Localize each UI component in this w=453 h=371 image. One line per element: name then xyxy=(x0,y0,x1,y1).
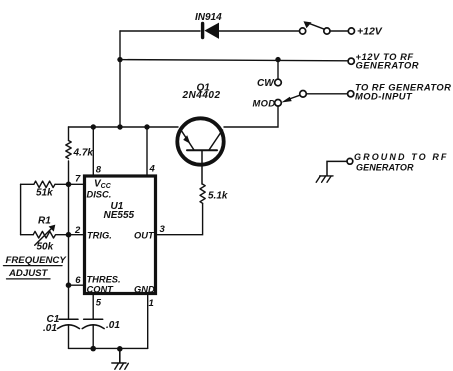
label U1 NE555 xyxy=(104,201,135,221)
label Q1 2N4402 xyxy=(182,83,221,102)
label TRIG. xyxy=(87,231,112,241)
wire: +12 rail (row 3) to Q1 emitter xyxy=(69,126,179,128)
node: cap2 bottom junction xyxy=(90,346,96,352)
svg-text:GND: GND xyxy=(134,285,155,295)
capacitor C1 .01 xyxy=(58,319,80,348)
switch S1 (open, lever arrow) xyxy=(300,21,355,34)
resistor R4 51k (pin7 to pot) xyxy=(21,181,66,187)
label TO RF GENERATOR MOD-INPUT xyxy=(355,81,451,101)
node: ground tap junction xyxy=(117,346,123,352)
svg-text:51k: 51k xyxy=(36,188,53,199)
svg-text:NE555: NE555 xyxy=(104,210,135,221)
pin number 2 xyxy=(74,225,81,236)
label MOD xyxy=(253,98,276,109)
svg-text:4.7k: 4.7k xyxy=(73,148,94,159)
svg-text:4: 4 xyxy=(149,164,156,175)
svg-text:OUT: OUT xyxy=(134,231,155,241)
svg-text:CW: CW xyxy=(257,78,275,89)
terminal CW xyxy=(275,79,282,86)
label 1N914 xyxy=(195,12,222,23)
pin number 4 xyxy=(149,164,156,175)
svg-text:.01: .01 xyxy=(43,323,57,334)
terminal MOD xyxy=(275,100,282,107)
label DISC. xyxy=(87,189,112,199)
svg-text:THRES.: THRES. xyxy=(87,275,121,285)
svg-text:FREQUENCY: FREQUENCY xyxy=(6,255,68,266)
label C1 .01 xyxy=(43,314,60,334)
wire: pin 7 stub xyxy=(69,183,85,185)
wire: left column pin7 to pin6 to bottom rail xyxy=(68,184,70,319)
wire: diode to switch S1 xyxy=(219,30,300,32)
wire: pin 5 vertical xyxy=(92,294,94,320)
wire: CW tap vertical xyxy=(277,60,279,80)
terminal: GROUND TO RF GENERATOR xyxy=(347,158,353,164)
label +12V TO RF GENERATOR xyxy=(356,51,420,71)
svg-text:3: 3 xyxy=(160,224,166,235)
ground (RF generator) xyxy=(316,161,347,182)
label FREQUENCY ADJUST xyxy=(4,255,68,279)
capacitor C2 .01 (pin 5 bypass) xyxy=(82,319,104,348)
svg-text:GENERATOR: GENERATOR xyxy=(356,60,420,71)
node: junction dot diode column xyxy=(117,124,122,129)
svg-text:7: 7 xyxy=(75,174,81,185)
svg-text:MOD: MOD xyxy=(253,98,276,109)
svg-text:CONT: CONT xyxy=(87,285,115,295)
node: junction dot pin4 column xyxy=(144,124,149,129)
pin number 5 xyxy=(96,298,102,309)
label +12V xyxy=(357,26,383,38)
wire: pin 6 stub xyxy=(69,284,85,286)
svg-text:6: 6 xyxy=(75,275,81,286)
node: pin 7 junction xyxy=(66,182,72,188)
wire: pin 4 xyxy=(146,127,148,176)
label THRES. xyxy=(87,275,121,285)
label Vcc xyxy=(94,178,112,190)
label 51k xyxy=(36,188,53,199)
label 4.7k xyxy=(73,148,94,159)
svg-text:1: 1 xyxy=(149,298,154,309)
wire: +12V rail (row 2) to RF generator terminal xyxy=(120,60,348,61)
svg-text:MOD-INPUT: MOD-INPUT xyxy=(355,91,413,102)
svg-text:TRIG.: TRIG. xyxy=(87,231,112,241)
wire: left loop vertical xyxy=(20,184,22,234)
label GND xyxy=(134,285,155,295)
node: junction dot pin8 column xyxy=(91,124,96,129)
svg-text:IN914: IN914 xyxy=(195,12,222,23)
svg-text:VCC: VCC xyxy=(94,178,112,190)
label 50k xyxy=(37,242,54,253)
pin number 3 xyxy=(160,224,166,235)
node: junction dot CW tap xyxy=(275,57,280,62)
svg-text:2N4402: 2N4402 xyxy=(182,90,221,101)
svg-text:5: 5 xyxy=(96,298,102,309)
label R1 xyxy=(38,215,51,226)
resistor R2 5.1k (base of Q1 to pin 3) xyxy=(200,184,205,203)
potentiometer R1 50k xyxy=(21,225,66,246)
pin number 1 xyxy=(149,298,154,309)
label CW xyxy=(257,78,275,89)
svg-text:2: 2 xyxy=(74,225,81,236)
wire: pin 1 vertical xyxy=(147,294,149,349)
node: pin 2 junction xyxy=(66,232,72,238)
node: junction dot left vertical / row2 xyxy=(117,57,122,62)
node: pin 6 junction xyxy=(66,282,72,288)
svg-text:50k: 50k xyxy=(37,242,54,253)
wire: top row from left vertical to diode xyxy=(120,30,200,32)
label 5.1k xyxy=(208,191,228,202)
wire: bottom rail xyxy=(69,347,148,349)
svg-text:DISC.: DISC. xyxy=(87,189,112,199)
wire: left vertical from diode row to +12 rail xyxy=(119,31,121,127)
wire: pin 2 stub xyxy=(69,234,85,236)
label GROUND TO RF GENERATOR xyxy=(354,152,449,173)
label .01 xyxy=(106,320,120,331)
svg-text:R1: R1 xyxy=(38,215,51,226)
label CONT xyxy=(87,285,115,295)
svg-text:.01: .01 xyxy=(106,320,120,331)
wire: MOD terminal down and left to Q1 collector xyxy=(224,106,278,127)
svg-text:GROUND TO RF: GROUND TO RF xyxy=(354,152,449,162)
wire: pin 8 xyxy=(92,127,94,176)
svg-text:5.1k: 5.1k xyxy=(208,191,228,202)
terminal: +12V TO RF GENERATOR xyxy=(348,58,354,64)
transistor Q1 2N4402 (PNP) xyxy=(177,118,223,184)
svg-text:8: 8 xyxy=(96,165,102,176)
diode D1 1N914 (cathode bar left, triangle pointing left) xyxy=(203,24,219,39)
switch S2 (MOD/CW selector) lever with arrow xyxy=(281,91,354,103)
ground (main) xyxy=(112,349,129,370)
pin number 8 xyxy=(96,165,102,176)
wire: 5.1k to OUT pin 3 xyxy=(156,203,203,234)
svg-text:ADJUST: ADJUST xyxy=(8,268,49,279)
svg-text:+12V: +12V xyxy=(357,26,383,38)
pin number 7 xyxy=(75,174,81,185)
pin number 6 xyxy=(75,275,81,286)
resistor R3 4.7k (rail to pin 7) xyxy=(66,127,71,184)
IC U1 NE555 box xyxy=(85,176,156,294)
svg-text:GENERATOR: GENERATOR xyxy=(356,163,414,173)
label OUT xyxy=(134,231,155,241)
